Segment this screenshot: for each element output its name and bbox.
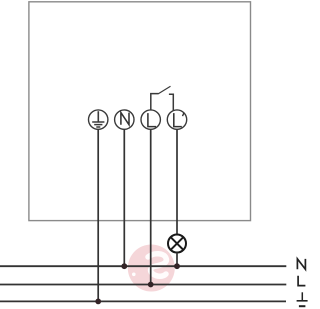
junction L wire / L line xyxy=(148,282,154,288)
wire N vertical xyxy=(123,129,125,266)
wire PE vertical xyxy=(97,129,99,301)
terminal N xyxy=(115,110,134,129)
mains line PE xyxy=(0,300,286,302)
junction N wire / N line xyxy=(121,263,127,269)
lamp E1 xyxy=(168,235,186,253)
junction PE wire / PE line xyxy=(95,299,101,305)
device outline xyxy=(29,2,251,221)
mains line N xyxy=(0,265,286,267)
ground symbol xyxy=(297,292,308,306)
terminal L' xyxy=(167,110,186,129)
label N xyxy=(297,259,305,269)
terminal PE xyxy=(89,110,108,129)
switch S1 xyxy=(151,86,174,110)
junction lamp / N line xyxy=(174,263,180,269)
wire L' to lamp xyxy=(176,129,178,234)
mains line L xyxy=(0,284,286,286)
wire L vertical xyxy=(150,129,152,284)
wire lamp to N line xyxy=(176,253,178,267)
terminal L xyxy=(141,110,160,129)
watermark xyxy=(128,245,175,292)
label L xyxy=(298,276,305,286)
